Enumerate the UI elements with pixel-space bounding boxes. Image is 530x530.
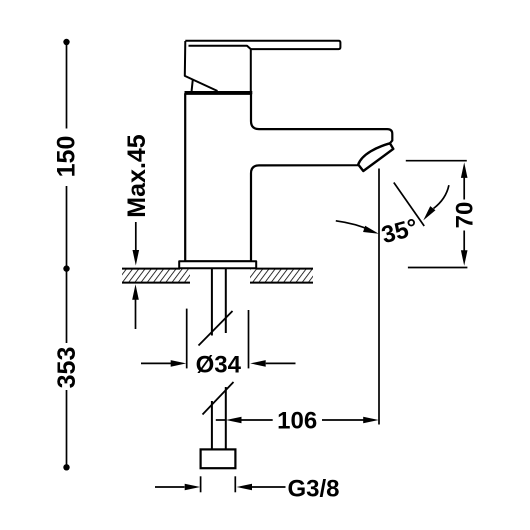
svg-text:106: 106 (277, 407, 317, 434)
svg-text:G3/8: G3/8 (288, 476, 340, 503)
svg-text:35°: 35° (379, 214, 421, 249)
svg-text:353: 353 (53, 347, 81, 389)
svg-text:Max.45: Max.45 (123, 134, 151, 217)
svg-text:Ø34: Ø34 (196, 352, 242, 379)
svg-text:150: 150 (53, 136, 81, 178)
svg-text:70: 70 (451, 202, 478, 229)
